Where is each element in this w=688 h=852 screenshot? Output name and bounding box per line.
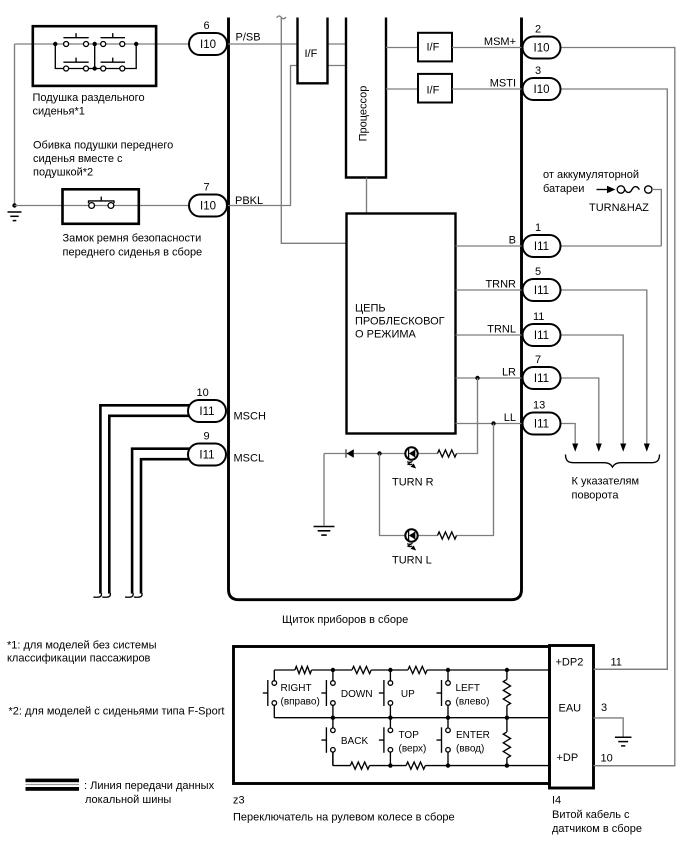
wire LL branch down to TURN L resistor [457, 424, 494, 536]
svg-text:Витой кабель с: Витой кабель с [552, 809, 630, 821]
I/F interface box (left) [298, 18, 328, 84]
wire left vertical ground bus [14, 44, 16, 206]
svg-text:I11: I11 [534, 285, 549, 297]
svg-text:10: 10 [601, 753, 613, 765]
svg-text:RIGHT: RIGHT [281, 683, 312, 694]
wire lower branch inside airbag box [55, 44, 136, 69]
node top bus [331, 668, 335, 672]
seat belt buckle switch box [63, 189, 139, 224]
wire MSTI I/F to I10 pin 3 [452, 88, 523, 90]
wire MSM+ I/F to I10 pin 2 [452, 47, 523, 49]
wire B I11 pin1 to fuse [562, 245, 662, 247]
wire EAU to ground [594, 718, 624, 737]
flasher mode circuit box [347, 214, 456, 434]
svg-text:локальной шины: локальной шины [85, 794, 171, 806]
svg-text:I11: I11 [534, 419, 549, 431]
svg-text:MSTI: MSTI [490, 78, 516, 90]
node bottom bus [388, 763, 392, 767]
wire fuse to B [652, 190, 661, 247]
svg-text:I11: I11 [534, 330, 549, 342]
ground (EAU) [615, 737, 632, 746]
svg-text:ЦЕПЬ: ЦЕПЬ [355, 303, 386, 315]
svg-text:TRNR: TRNR [485, 279, 516, 291]
svg-text:классификации пассажиров: классификации пассажиров [7, 653, 151, 665]
svg-text:z3: z3 [233, 795, 245, 807]
switch BACK [321, 727, 368, 753]
svg-text:BACK: BACK [341, 736, 369, 747]
svg-text:*1: для моделей без системы: *1: для моделей без системы [7, 640, 157, 652]
wire MSM+ to +DP [562, 48, 675, 766]
svg-text:подушкой*2: подушкой*2 [33, 167, 93, 179]
connector I11 pin 11 [523, 311, 561, 346]
switch S2 (airbag upper right) [101, 33, 126, 46]
svg-text:13: 13 [533, 400, 545, 412]
svg-text:(ввод): (ввод) [456, 743, 484, 754]
svg-text:DOWN: DOWN [341, 689, 373, 700]
svg-text:TURN L: TURN L [392, 555, 432, 567]
ground (left) [8, 212, 22, 221]
connector I11 pin 5 [523, 266, 561, 301]
resistor TURN R [438, 450, 457, 457]
svg-text:I10: I10 [200, 39, 216, 51]
svg-text:(влево): (влево) [456, 696, 490, 707]
resistor z3 R7 [406, 762, 425, 769]
svg-text:P/SB: P/SB [236, 32, 261, 44]
svg-text:К указателям: К указателям [572, 476, 640, 488]
wire PBKL riser to I/F [228, 66, 298, 206]
svg-text:I/F: I/F [427, 42, 440, 54]
wire processor to I/F lower [386, 88, 418, 90]
connector I11 pin 13 [523, 400, 561, 435]
svg-text:7: 7 [535, 354, 541, 366]
resistor z3 R6 [350, 762, 369, 769]
node middle bus [505, 716, 509, 720]
node TURN junction [377, 451, 381, 455]
switch S3 (airbag lower left) [63, 58, 88, 71]
wire middle link airbag box [94, 44, 96, 69]
svg-text:LL: LL [504, 412, 516, 424]
svg-text:LR: LR [502, 367, 516, 379]
fuse TURN&HAZ [589, 186, 652, 214]
wire LL flasher to connector [456, 423, 523, 425]
connector I10 pin 3 [523, 65, 561, 100]
svg-text:TURN R: TURN R [392, 477, 434, 489]
svg-text:: Линия передачи данных: : Линия передачи данных [84, 780, 215, 792]
connector I10 pin 7 [189, 182, 227, 217]
connector I11 pin 10 [188, 387, 226, 422]
svg-text:+DP: +DP [557, 752, 579, 764]
svg-text:I11: I11 [534, 241, 549, 253]
svg-text:1: 1 [535, 222, 541, 234]
ground (turn LED) [314, 527, 335, 536]
node LR junction [475, 376, 479, 380]
wire LR to turn signal arrow [562, 378, 599, 445]
spiral cable box I4 [550, 646, 594, 789]
node junction left bus / PBKL [12, 203, 16, 207]
brace to turn indicators [566, 455, 660, 468]
svg-text:2: 2 [535, 24, 541, 36]
connector I11 pin 7 [523, 354, 561, 389]
wire +DP2 to riser 11 [594, 668, 668, 670]
node middle bus [388, 716, 392, 720]
wire processor to I/F upper [386, 47, 418, 49]
node bottom bus [446, 763, 450, 767]
switch UP [379, 680, 415, 706]
svg-text:переднего сиденья в сборе: переднего сиденья в сборе [63, 247, 203, 259]
node top bus [505, 668, 509, 672]
svg-text:10: 10 [197, 387, 209, 399]
wire LR branch down to TURN R resistor [457, 378, 478, 454]
svg-text:11: 11 [611, 657, 622, 669]
wire MSCH bus line 1 [100, 405, 190, 593]
wire continuation with break symbol to flasher circuit [281, 18, 346, 243]
svg-text:Процессор: Процессор [358, 86, 370, 142]
svg-text:сиденья вместе с: сиденья вместе с [33, 153, 123, 165]
wire TRNR flasher to connector [456, 289, 523, 291]
svg-text:EAU: EAU [559, 703, 582, 715]
wire B flasher to connector [456, 245, 523, 247]
node middle bus [446, 716, 450, 720]
wire TRNL flasher to connector [456, 334, 523, 336]
seat cushion airbag switch box [33, 26, 156, 86]
svg-text:ПРОБЛЕСКОВОГ: ПРОБЛЕСКОВОГ [355, 316, 445, 328]
node A3 [134, 42, 138, 46]
svg-text:I4: I4 [552, 795, 561, 807]
resistor z3 R1 [295, 666, 312, 673]
svg-text:(вправо): (вправо) [281, 696, 320, 707]
wire MSCH bus line 2 [109, 416, 190, 594]
processor box U1 [346, 18, 386, 178]
node A2 [93, 42, 97, 46]
node top bus [388, 668, 392, 672]
svg-text:UP: UP [401, 689, 415, 700]
svg-text:I11: I11 [199, 450, 214, 462]
switch ENTER [437, 727, 490, 754]
svg-text:MSM+: MSM+ [484, 36, 516, 48]
switch LEFT [437, 680, 490, 707]
wire I/F to processor (upper) [328, 43, 347, 45]
svg-text:9: 9 [204, 431, 210, 443]
svg-text:11: 11 [533, 311, 544, 323]
resistor TURN L [438, 532, 457, 539]
wire TURN R to TURN L [380, 454, 438, 536]
wire I/F to processor (lower) [328, 65, 347, 67]
I/F interface box (upper right) [418, 33, 452, 62]
svg-text:Щиток приборов в сборе: Щиток приборов в сборе [282, 614, 408, 626]
svg-text:*2: для моделей с сиденьями ти: *2: для моделей с сиденьями типа F-Sport [9, 706, 225, 718]
switch S4 (airbag lower right) [101, 58, 126, 71]
svg-text:(верх): (верх) [399, 743, 427, 754]
svg-text:TURN&HAZ: TURN&HAZ [589, 202, 649, 214]
svg-text:5: 5 [535, 266, 541, 278]
wire TRNL to turn signal arrow [562, 335, 624, 445]
svg-text:Обивка подушки переднего: Обивка подушки переднего [33, 140, 173, 152]
node A1 [53, 42, 57, 46]
wire LL to turn signal arrow [562, 424, 576, 445]
wire PBKL from seat belt switch to I10 pin 7 [15, 205, 189, 207]
svg-text:3: 3 [601, 702, 607, 714]
resistor z3 R5 (vertical) [503, 718, 510, 766]
wire TURN R row [324, 453, 438, 455]
switch S1 (airbag upper left) [63, 33, 88, 46]
svg-text:TOP: TOP [399, 730, 420, 741]
svg-text:Переключатель на рулевом колес: Переключатель на рулевом колесе в сборе [233, 812, 455, 824]
svg-text:I/F: I/F [305, 48, 318, 60]
switch seat belt buckle [89, 197, 115, 209]
wire LR flasher to connector [456, 377, 523, 379]
resistor z3 R4 (vertical) [503, 670, 510, 718]
svg-text:поворота: поворота [572, 490, 620, 502]
legend local bus data line [26, 779, 215, 806]
wire top bus +DP2 row [274, 670, 549, 681]
svg-text:I10: I10 [534, 84, 550, 96]
svg-text:LEFT: LEFT [456, 683, 480, 694]
svg-text:6: 6 [204, 20, 210, 32]
svg-text:Замок ремня безопасности: Замок ремня безопасности [63, 233, 202, 245]
svg-text:датчиком в сборе: датчиком в сборе [552, 823, 642, 835]
wire P/SB inside cluster to I/F [228, 43, 298, 45]
resistor z3 R3 [408, 666, 427, 673]
connector I11 pin 1 [523, 222, 561, 257]
node bottom bus [505, 763, 509, 767]
switch RIGHT [263, 680, 320, 707]
svg-text:батареи: батареи [543, 183, 584, 195]
svg-text:B: B [509, 235, 516, 247]
svg-text:TRNL: TRNL [487, 324, 516, 336]
svg-text:О РЕЖИМА: О РЕЖИМА [355, 329, 417, 341]
LED TURN R [392, 447, 434, 488]
wire TRNR to turn signal arrow [562, 290, 647, 445]
svg-text:3: 3 [535, 65, 541, 77]
diode D1 [346, 449, 354, 458]
connector I11 pin 9 [188, 431, 226, 466]
node A4 [93, 66, 97, 70]
svg-text:+DP2: +DP2 [556, 657, 584, 669]
svg-text:от аккумуляторной: от аккумуляторной [543, 169, 639, 181]
svg-text:сиденья*1: сиденья*1 [33, 106, 85, 118]
wire MSTI to +DP2 [562, 89, 668, 669]
resistor z3 R2 [352, 666, 371, 673]
wire switch column stubs [333, 670, 448, 718]
connector I10 pin 2 [523, 24, 561, 59]
node top bus [446, 668, 450, 672]
node middle bus [331, 716, 335, 720]
svg-text:I/F: I/F [427, 85, 440, 97]
svg-text:MSCL: MSCL [234, 453, 265, 465]
connector I10 pin 6 [189, 20, 227, 55]
svg-text:I11: I11 [534, 373, 549, 385]
wire processor to flasher circuit [366, 178, 368, 214]
wire to ground [323, 454, 325, 526]
wire P/SB from ground bus through airbag switches to I10 pin 6 [15, 43, 191, 45]
node LL junction [491, 421, 495, 425]
steering pad switch box z3 [234, 647, 550, 784]
svg-text:I10: I10 [534, 43, 550, 55]
svg-text:Подушка раздельного: Подушка раздельного [33, 92, 145, 104]
wire MSCL bus line 1 [132, 449, 190, 594]
svg-text:I10: I10 [200, 201, 216, 213]
wire bottom bus +DP row [333, 752, 550, 766]
wire +DP to riser 10 [594, 765, 675, 767]
LED TURN L [392, 529, 432, 566]
switch TOP [379, 727, 426, 754]
battery feed arrow [597, 189, 609, 191]
svg-text:ENTER: ENTER [456, 730, 490, 741]
wire middle bus EAU row [274, 705, 549, 717]
instrument cluster assembly box [229, 18, 522, 600]
svg-text:MSCH: MSCH [234, 411, 266, 423]
svg-text:7: 7 [204, 182, 210, 194]
I/F interface box (lower right) [418, 74, 452, 103]
svg-text:I11: I11 [199, 406, 214, 418]
wire MSCL bus line 2 [141, 459, 190, 593]
switch DOWN [321, 680, 372, 706]
